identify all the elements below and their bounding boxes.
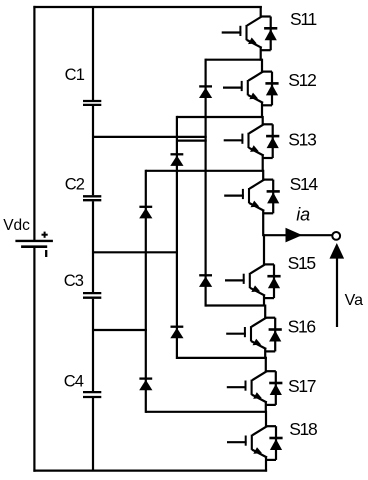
wire — [265, 411, 267, 427]
wire — [92, 7, 94, 100]
svg-text:Vdc: Vdc — [3, 217, 30, 234]
wire — [145, 170, 147, 413]
svg-text:S16: S16 — [288, 317, 316, 337]
capacitor C1 — [83, 101, 101, 105]
wire — [262, 154, 264, 172]
wire — [262, 210, 264, 237]
wire — [33, 6, 35, 240]
svg-text:S12: S12 — [288, 70, 316, 90]
diode of S16 — [265, 318, 282, 352]
wire — [260, 6, 262, 18]
svg-text:Va: Va — [345, 292, 363, 309]
svg-text:C2: C2 — [65, 175, 85, 193]
svg-text:C4: C4 — [64, 373, 84, 391]
wire — [264, 305, 266, 319]
diode of S11 — [260, 17, 277, 51]
diode of S13 — [262, 124, 279, 158]
wire — [262, 116, 264, 125]
wire — [177, 116, 264, 118]
wire — [33, 248, 35, 472]
battery plus sign — [42, 232, 48, 238]
transistor S12 — [223, 72, 263, 103]
wire — [146, 411, 267, 413]
wire — [263, 294, 265, 306]
wire — [33, 470, 267, 472]
diode of S17 — [265, 371, 282, 405]
capacitor C4 — [83, 392, 101, 397]
diode of S14 — [263, 180, 280, 214]
transistor S15 — [225, 264, 265, 295]
node V1 wire — [92, 329, 147, 331]
clamp diode D5 — [170, 327, 183, 339]
svg-text:ia: ia — [296, 205, 310, 225]
output wire — [264, 234, 333, 236]
wire — [33, 6, 261, 8]
clamp diode D1 — [199, 86, 212, 98]
wire — [263, 234, 265, 265]
transistor S14 — [224, 180, 264, 211]
wire — [206, 304, 266, 306]
clamp diode D2 — [170, 154, 183, 166]
diode of S12 — [262, 72, 279, 106]
transistor S13 — [224, 124, 264, 155]
transistor S16 — [226, 318, 266, 349]
wire — [265, 357, 267, 372]
clamp diode D3 — [139, 207, 152, 219]
svg-text:S18: S18 — [289, 419, 317, 439]
battery Vdc — [15, 241, 53, 247]
wire — [146, 170, 264, 172]
wire — [176, 116, 178, 359]
wire — [92, 201, 94, 292]
wire — [205, 59, 207, 307]
wire — [261, 59, 263, 73]
wire — [261, 102, 263, 118]
output terminal a — [332, 232, 340, 240]
clamp diode D6 — [139, 379, 152, 391]
node V3 wire — [92, 136, 207, 138]
transistor S17 — [227, 371, 267, 402]
transistor S18 — [227, 426, 267, 457]
wire — [206, 59, 263, 61]
svg-text:S17: S17 — [288, 376, 316, 396]
capacitor C2 — [83, 196, 101, 200]
wire — [92, 299, 94, 391]
svg-text:S13: S13 — [288, 130, 316, 150]
wire — [265, 401, 267, 413]
svg-text:S11: S11 — [290, 9, 317, 29]
wire — [92, 398, 94, 471]
wire — [177, 140, 207, 142]
wire — [265, 456, 267, 471]
svg-text:C1: C1 — [65, 66, 85, 84]
wire — [92, 106, 94, 195]
diode of S15 — [264, 264, 281, 298]
transistor S11 — [222, 17, 262, 48]
current arrow ia — [286, 228, 303, 243]
voltage arrow Va — [330, 243, 345, 327]
svg-text:S14: S14 — [290, 174, 319, 194]
svg-text:S15: S15 — [288, 253, 316, 273]
clamp diode D4 — [199, 275, 212, 287]
wire — [177, 357, 267, 359]
svg-text:C3: C3 — [64, 272, 84, 290]
capacitor C3 — [83, 293, 101, 298]
wire — [260, 47, 262, 61]
node V2 wire — [92, 251, 178, 253]
battery minus sign — [45, 250, 47, 257]
wire — [264, 348, 266, 359]
diode of S18 — [266, 426, 283, 460]
wire — [262, 170, 264, 181]
